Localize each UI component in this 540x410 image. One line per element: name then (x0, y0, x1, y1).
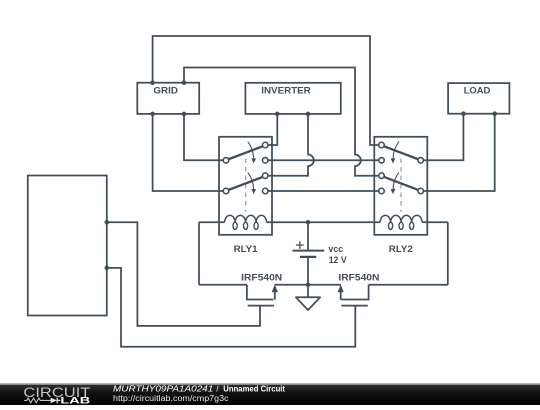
svg-text:INVERTER: INVERTER (261, 85, 311, 96)
svg-text:GRID: GRID (153, 85, 178, 96)
svg-text:12 V: 12 V (329, 255, 348, 266)
svg-text:RLY2: RLY2 (389, 244, 413, 255)
svg-text:IRF540N: IRF540N (338, 273, 379, 284)
svg-text:http://circuitlab.com/cmp7g3c: http://circuitlab.com/cmp7g3c (113, 394, 229, 403)
svg-text:RLY1: RLY1 (234, 244, 259, 255)
svg-text:LAB: LAB (60, 395, 90, 405)
svg-text:MURTHY09PA1A0241: MURTHY09PA1A0241 (113, 384, 213, 393)
svg-text:Unnamed Circuit: Unnamed Circuit (223, 384, 285, 393)
svg-text:LOAD: LOAD (464, 85, 491, 96)
svg-text:IRF540N: IRF540N (241, 273, 282, 284)
svg-text:vcc: vcc (328, 244, 343, 255)
